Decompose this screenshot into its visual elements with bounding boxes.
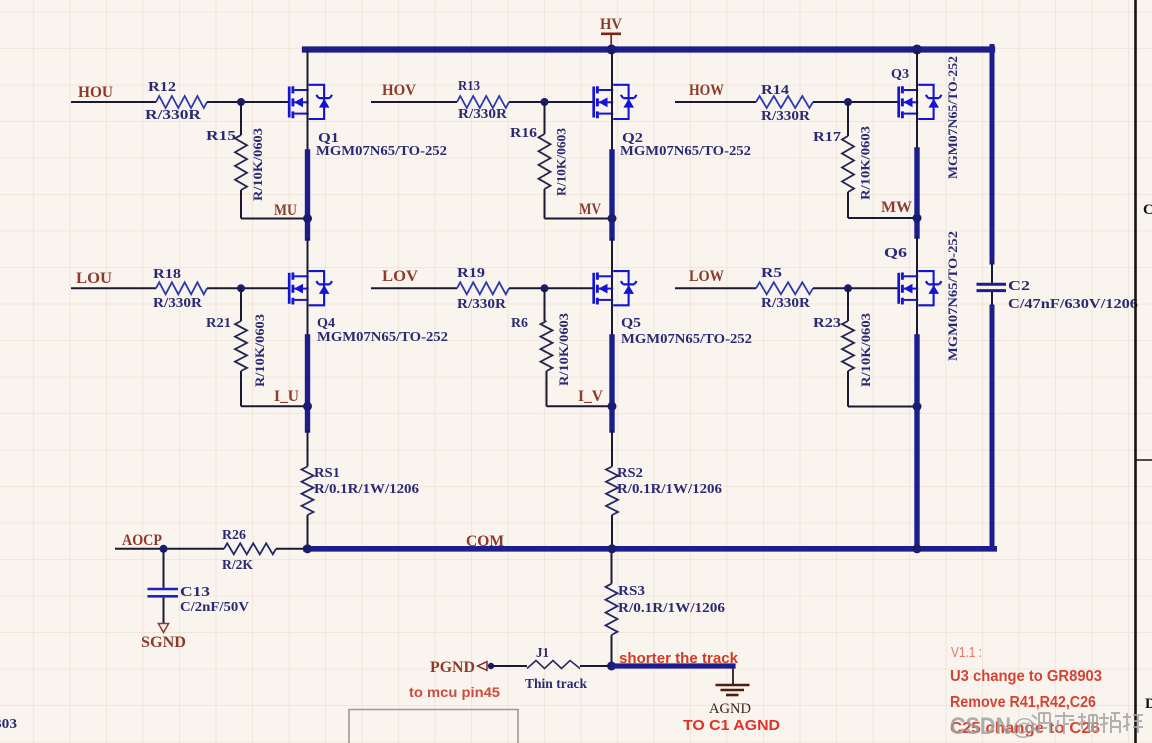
junction COM W	[913, 544, 922, 553]
wire MU thick segment	[305, 152, 310, 238]
svg-text:AGND: AGND	[709, 701, 751, 717]
svg-text:I_U: I_U	[274, 388, 299, 405]
jumper J1	[527, 661, 580, 669]
svg-text:MU: MU	[274, 202, 297, 219]
svg-text:R/330R: R/330R	[458, 107, 508, 122]
svg-text:Q5: Q5	[621, 316, 641, 331]
junction gate V high	[541, 98, 549, 106]
svg-text:J1: J1	[536, 646, 549, 661]
wire I_U thick segment	[305, 337, 310, 430]
wire I_U horizontal	[241, 405, 308, 407]
wire R19 to Q5 gate	[509, 287, 594, 289]
ground SGND arrow	[158, 624, 168, 633]
junction gate V low	[541, 284, 549, 292]
svg-text:C/2nF/50V: C/2nF/50V	[180, 600, 249, 615]
svg-text:R5: R5	[761, 266, 782, 281]
svg-text:LOV: LOV	[382, 268, 418, 285]
ground AGND bars	[716, 684, 750, 687]
junction COM U	[303, 544, 312, 553]
svg-text:D: D	[1145, 696, 1152, 712]
wire Q3 drain-source	[916, 52, 918, 151]
capacitor C2	[977, 283, 1007, 286]
svg-text:R/330R: R/330R	[761, 296, 811, 311]
junction COM V	[608, 544, 617, 553]
wire HOW lead	[675, 101, 756, 103]
svg-text:MV: MV	[579, 201, 601, 218]
title block outline	[349, 710, 518, 743]
svg-text:V1.1 :: V1.1 :	[951, 645, 982, 661]
svg-text:MGM07N65/TO-252: MGM07N65/TO-252	[621, 332, 752, 347]
watermark chinese glyph blocks	[1030, 713, 1050, 733]
svg-text:TO C1 AGND: TO C1 AGND	[683, 717, 780, 734]
resistor R13	[457, 96, 509, 108]
shunt resistor RS3	[606, 584, 618, 635]
wire R26 to COM	[276, 548, 306, 550]
wire LOU lead	[71, 287, 156, 289]
wire HOU lead	[71, 101, 156, 103]
wire MW thick segment	[914, 150, 919, 236]
wire MV thick segment	[609, 152, 614, 238]
port PGND arrow	[478, 662, 488, 671]
junction I_U	[303, 402, 312, 411]
svg-text:C2: C2	[1008, 279, 1030, 294]
svg-text:R/10K/0603: R/10K/0603	[858, 312, 873, 387]
wire shorter-the-track thick	[613, 663, 733, 668]
shunt resistor RS1	[302, 467, 314, 516]
wire Q2 drain-source	[611, 52, 613, 153]
wire COM bus	[306, 546, 994, 552]
resistor R12	[156, 96, 207, 108]
svg-text:RS2: RS2	[617, 466, 643, 481]
svg-text:R21: R21	[206, 316, 231, 331]
wire C13 bottom	[163, 598, 165, 624]
svg-text:R19: R19	[457, 266, 485, 281]
wire RS3 to AGND node	[611, 635, 613, 666]
wire AOCP lead	[115, 548, 224, 550]
wire COM to RS3	[611, 552, 613, 584]
svg-text:R/10K/0603: R/10K/0603	[556, 312, 571, 386]
wire LOV lead	[371, 287, 457, 289]
resistor R18	[156, 282, 207, 294]
wire I_V thick segment	[609, 337, 614, 430]
svg-text:Q4: Q4	[317, 316, 335, 331]
svg-text:R12: R12	[148, 80, 176, 95]
svg-text:PGND: PGND	[430, 659, 475, 676]
wire MW to Q6 drain	[916, 236, 918, 337]
capacitor C13	[148, 588, 179, 591]
junction MU	[303, 214, 312, 223]
svg-text:Q6: Q6	[884, 246, 907, 261]
transistor Q1	[289, 85, 332, 119]
svg-text:MGM07N65/TO-252: MGM07N65/TO-252	[620, 144, 751, 159]
svg-text:HOW: HOW	[689, 82, 724, 99]
svg-text:R/10K/0603: R/10K/0603	[252, 313, 267, 387]
junction MV	[608, 214, 617, 223]
wire C2 top stub	[991, 262, 993, 283]
sheet border zone tick	[1136, 459, 1152, 461]
svg-text:LOU: LOU	[76, 270, 112, 287]
svg-text:R/330R: R/330R	[145, 108, 202, 123]
wire C13 top	[163, 549, 165, 588]
junction I_V	[608, 402, 617, 411]
transistor Q2	[594, 85, 637, 119]
resistor R26	[224, 543, 276, 554]
wire to RS1	[307, 430, 309, 467]
wire RS1 to COM	[307, 515, 309, 546]
junction HV on rail	[607, 45, 617, 55]
shunt resistor RS2	[606, 467, 618, 516]
transistor Q5	[594, 271, 637, 305]
svg-text:R26: R26	[222, 528, 246, 543]
svg-text:R16: R16	[510, 126, 537, 141]
wire to RS2	[611, 430, 613, 467]
resistor R5	[756, 282, 813, 294]
wire MW horizontal	[848, 217, 917, 219]
svg-text:U3 change to GR8903: U3 change to GR8903	[950, 668, 1102, 685]
wire right HV rail vertical upper	[990, 47, 995, 263]
svg-text:COM: COM	[466, 533, 504, 550]
svg-text:R/0.1R/1W/1206: R/0.1R/1W/1206	[314, 482, 419, 497]
svg-text:HOV: HOV	[382, 82, 416, 99]
svg-text:RS1: RS1	[314, 466, 340, 481]
svg-text:RS3: RS3	[618, 584, 645, 599]
svg-text:R/10K/0603: R/10K/0603	[554, 127, 569, 196]
wire R18 to Q4 gate	[207, 287, 289, 289]
wire W column thick to COM	[914, 337, 919, 547]
svg-text:R/330R: R/330R	[457, 297, 507, 312]
wire MU to Q4 drain	[307, 238, 309, 337]
svg-text:LOW: LOW	[689, 268, 724, 285]
svg-text:Remove R41,R42,C26: Remove R41,R42,C26	[950, 694, 1096, 711]
svg-text:AOCP: AOCP	[122, 532, 162, 549]
junction gate W low	[844, 284, 852, 292]
svg-text:R/0.1R/1W/1206: R/0.1R/1W/1206	[618, 601, 725, 616]
wire R12 to Q1 gate	[207, 101, 289, 103]
wire J1 to RS3 node	[580, 665, 611, 667]
svg-text:I_V: I_V	[578, 388, 603, 405]
svg-text:R/10K/0603: R/10K/0603	[858, 125, 873, 200]
svg-text:303: 303	[0, 717, 17, 732]
svg-text:HV: HV	[600, 16, 622, 33]
svg-text:R/10K/0603: R/10K/0603	[250, 127, 265, 201]
wire right rail lower vertical	[990, 307, 995, 549]
transistor Q3	[899, 85, 942, 119]
svg-text:R18: R18	[153, 267, 181, 282]
svg-text:R15: R15	[206, 129, 236, 144]
wire HV top rail	[305, 46, 992, 52]
wire MU horizontal	[241, 218, 308, 220]
svg-text:to mcu pin45: to mcu pin45	[409, 685, 501, 700]
junction I_W	[913, 402, 922, 411]
junction RS3 bottom	[607, 662, 616, 671]
svg-text:SGND: SGND	[141, 634, 186, 651]
wire I_V horizontal	[547, 405, 613, 407]
junction gate U low	[237, 284, 245, 292]
svg-text:R/0.1R/1W/1206: R/0.1R/1W/1206	[617, 482, 722, 497]
transistor Q4	[289, 271, 332, 305]
wire MV horizontal	[545, 218, 613, 220]
wire I_W horizontal	[848, 406, 917, 408]
wire Q1 drain-source	[307, 52, 309, 153]
svg-text:R14: R14	[761, 83, 789, 98]
svg-text:@: @	[1012, 714, 1035, 740]
wire PGND to J1	[491, 665, 527, 667]
svg-text:R/330R: R/330R	[761, 109, 811, 124]
svg-text:MGM07N65/TO-252: MGM07N65/TO-252	[316, 144, 447, 159]
svg-text:C13: C13	[180, 585, 210, 600]
junction AOCP	[160, 545, 168, 553]
svg-text:C: C	[1143, 202, 1152, 218]
svg-text:MGM07N65/TO-252: MGM07N65/TO-252	[317, 330, 448, 345]
junction PGND	[488, 663, 494, 669]
transistor Q6	[899, 271, 942, 305]
wire R14 to Q3 gate	[813, 101, 899, 103]
svg-text:C/47nF/630V/1206: C/47nF/630V/1206	[1008, 297, 1138, 312]
svg-text:R/330R: R/330R	[153, 296, 203, 311]
svg-text:shorter the track: shorter the track	[619, 651, 739, 667]
sheet border line	[1134, 0, 1137, 743]
resistor R14	[756, 96, 813, 108]
svg-text:R6: R6	[511, 316, 528, 331]
svg-text:MW: MW	[881, 199, 912, 216]
wire HOV lead	[371, 101, 457, 103]
junction gate W high	[844, 98, 852, 106]
svg-text:R23: R23	[813, 316, 841, 331]
ground AGND stub	[732, 669, 734, 685]
svg-text:MGM07N65/TO-252: MGM07N65/TO-252	[945, 231, 960, 361]
wire R13 to Q2 gate	[509, 101, 594, 103]
svg-text:CSDN: CSDN	[950, 713, 1011, 740]
svg-text:R17: R17	[813, 130, 841, 145]
wire LOW lead	[675, 287, 756, 289]
wire MV to Q5 drain	[611, 238, 613, 337]
junction Q3 drain on rail	[912, 45, 922, 55]
svg-text:Thin track: Thin track	[525, 677, 587, 692]
junction gate U high	[237, 98, 245, 106]
svg-text:MGM07N65/TO-252: MGM07N65/TO-252	[945, 56, 960, 179]
wire R5 to Q6 gate	[813, 287, 899, 289]
svg-text:HOU: HOU	[78, 84, 113, 101]
svg-text:Q3: Q3	[891, 67, 909, 82]
svg-text:R/2K: R/2K	[222, 558, 253, 573]
wire C2 bottom stub	[991, 292, 993, 308]
wire RS2 to COM	[611, 515, 613, 546]
resistor R19	[457, 282, 509, 294]
svg-text:R13: R13	[458, 79, 480, 94]
junction MW	[913, 214, 922, 223]
